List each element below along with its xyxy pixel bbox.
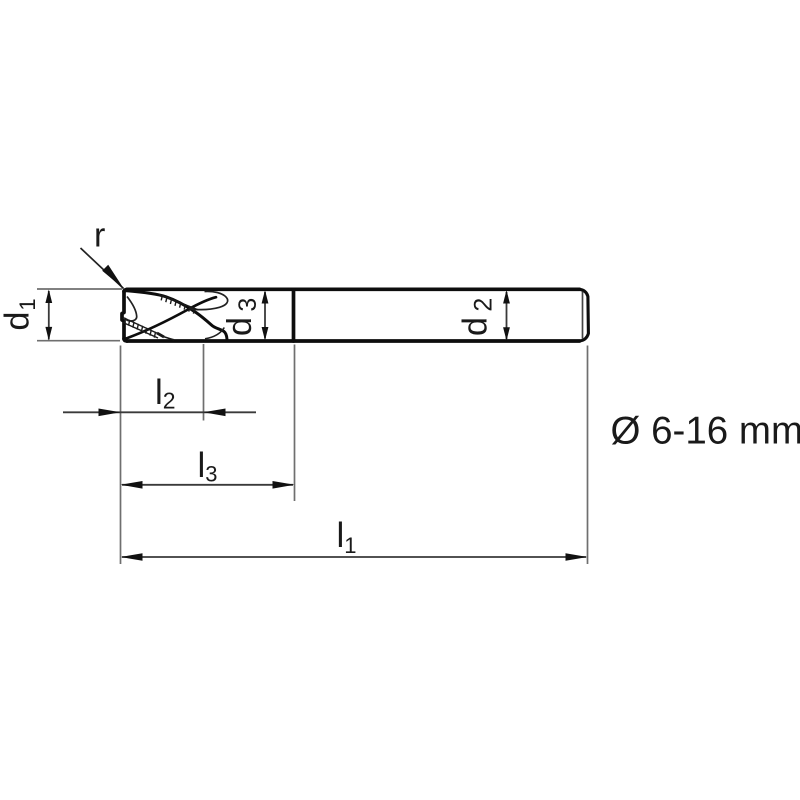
flute edge descending (helical cutting edge) [125,291,228,340]
radius leader line r [81,248,125,289]
dimension d1 arrow line [45,290,52,341]
shank chamfer inner line [582,292,584,339]
dimension line l1 [121,553,588,561]
tool body outline (end mill) [122,289,588,341]
extension line right (shank end) [587,346,589,565]
svg-text:r: r [94,217,105,255]
flute runout curve (lower) [205,328,224,339]
lower flute hatching [123,318,174,340]
top outline of tool [127,287,580,291]
svg-text:Ø 6-16 mm: Ø 6-16 mm [611,410,800,453]
bottom-left corner radius [124,339,127,341]
shank weld line [292,290,296,342]
upper flute hatching [159,294,198,313]
extension line d1 bottom [37,340,120,342]
extension line l2 right [203,344,205,421]
gash hook on front face [125,297,137,322]
extension line d1 top [37,288,122,290]
shank end chamfer top [580,289,589,341]
flute edge ascending (second helical edge) [126,297,216,338]
dimension line l3 [121,481,295,489]
dimension d3 arrow line [262,290,269,341]
extension line left (from cutter tip) [120,346,122,565]
flute runout arc (upper) [189,291,228,309]
top-left corner radius [124,290,127,292]
dimension line l2 [63,409,256,417]
dimension d2 arrow line [503,290,510,341]
extension line l3 right [294,345,296,502]
front cutting edge (left face) [122,292,124,339]
bottom outline of tool [127,339,580,343]
